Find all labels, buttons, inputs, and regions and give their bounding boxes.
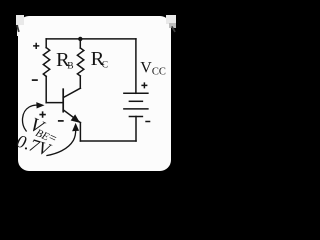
wire: battery top lead: [135, 39, 137, 93]
transistor Q1 emitter arrowhead: [71, 115, 79, 122]
transistor Q1 emitter lead: [63, 110, 80, 123]
svg-text:RB: RB: [56, 49, 74, 72]
wire: RC bottom lead to collector: [79, 76, 81, 88]
wire: top rail from RB top to battery +: [46, 38, 136, 40]
battery VCC plate 4 (short, -): [129, 116, 142, 118]
corner artifact top-left dark tick: [17, 26, 18, 31]
label: - at battery bottom: [145, 121, 150, 123]
label: - across RB (bottom): [32, 79, 38, 81]
wire: emitter down: [79, 123, 81, 141]
annotation arrowhead at emitter: [72, 123, 79, 131]
annotation arrow to base node (curved): [22, 105, 37, 131]
resistor RB (zigzag): [43, 48, 49, 77]
resistor RC (zigzag): [77, 48, 83, 76]
label: + across RB (top): [33, 43, 39, 49]
wire: base lead horizontal: [46, 102, 63, 104]
corner artifact top-right dark tick: [172, 27, 174, 31]
corner artifact top-left (gray patch): [16, 15, 24, 25]
wire: RC top lead: [79, 39, 81, 48]
transistor Q1 collector lead: [63, 88, 80, 97]
svg-text:VCC: VCC: [140, 59, 166, 77]
label: + at base (VBE polarity): [39, 111, 45, 117]
white schematic card: [18, 16, 171, 171]
node: junction dot at RC top: [78, 37, 82, 41]
annotation arrowhead at base node: [36, 102, 44, 108]
wire: bottom rail: [80, 140, 136, 142]
label: + at battery top: [141, 82, 147, 88]
corner artifact top-right (darker wedge): [169, 23, 176, 28]
wire: RB bottom lead down to base level: [45, 76, 47, 102]
annotation arrow to emitter (curved): [47, 129, 76, 156]
corner artifact top-right (gray patch): [166, 15, 176, 24]
battery VCC plate 2 (short): [129, 100, 142, 102]
battery VCC plate 3 (long): [124, 108, 148, 110]
wire: RB top lead: [45, 39, 47, 48]
corner artifact top-left (white strip below tick): [17, 26, 20, 36]
label: - at emitter (VBE polarity): [58, 120, 64, 122]
wire: battery bottom lead: [135, 117, 137, 142]
transistor Q1 base bar: [62, 89, 64, 112]
svg-text:RC: RC: [91, 48, 109, 71]
battery VCC plate 1 (long, +): [124, 92, 148, 94]
